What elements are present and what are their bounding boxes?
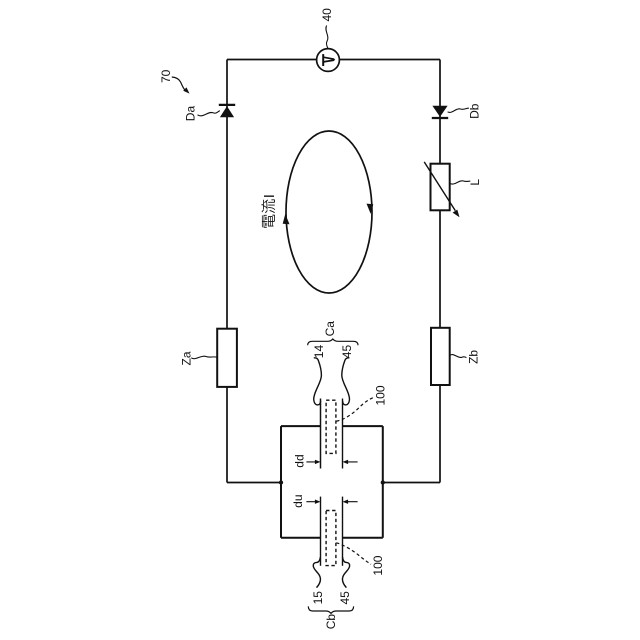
upper electrode 100 dashed	[326, 400, 336, 453]
upper transducer Ca outline left	[314, 358, 322, 405]
label L leader	[450, 181, 470, 184]
label 100 upper	[373, 385, 387, 405]
svg-text:Cb: Cb	[324, 614, 338, 630]
current loop arrowhead right (down)	[367, 204, 374, 214]
brace Ca	[308, 339, 358, 345]
label L	[468, 179, 482, 186]
diode Da	[219, 105, 235, 117]
svg-text:100: 100	[373, 385, 387, 405]
lower transducer Cb outline right	[342, 557, 349, 588]
current loop arrowhead left (up)	[283, 214, 290, 224]
svg-text:15: 15	[311, 591, 325, 605]
upper channel wall left	[320, 399, 322, 469]
svg-text:70: 70	[159, 69, 173, 83]
impedance Zb	[431, 328, 450, 385]
label 70	[159, 69, 173, 83]
brace Cb	[308, 606, 353, 613]
label dd	[293, 454, 307, 467]
label Db leader	[448, 108, 469, 112]
label Za	[180, 351, 194, 365]
wire bottom-right horizontal	[383, 482, 440, 484]
wire top-right segment	[339, 59, 440, 61]
upper channel wall right	[342, 399, 344, 469]
variable impedance L	[424, 162, 459, 217]
svg-text:45: 45	[340, 345, 354, 359]
svg-text:Za: Za	[180, 351, 194, 365]
svg-text:Da: Da	[184, 106, 198, 122]
label Db	[468, 103, 482, 119]
label Zb	[466, 350, 480, 364]
svg-text:dd: dd	[293, 454, 307, 467]
label 40 leader	[326, 26, 328, 49]
label 100 upper leader	[336, 398, 373, 422]
label 100 lower leader	[336, 543, 371, 565]
label 100 lower	[371, 555, 385, 575]
label Cb	[324, 614, 338, 630]
label Da leader	[198, 111, 220, 116]
wire bottom-left horizontal	[227, 482, 281, 484]
label 45 upper	[340, 345, 354, 359]
dimension dd	[306, 460, 357, 464]
label Za leader	[191, 356, 217, 359]
label 15	[311, 591, 325, 605]
svg-text:14: 14	[312, 345, 326, 359]
dimension du	[306, 500, 357, 504]
label current (dian-ryu I)	[261, 194, 278, 228]
upper transducer Ca outline right	[342, 358, 350, 405]
svg-text:L: L	[468, 179, 482, 186]
lower channel wall right	[342, 497, 344, 566]
lower channel wall left	[320, 497, 322, 566]
label 40	[320, 8, 334, 22]
ammeter U1 (circle)	[317, 49, 340, 72]
svg-text:I: I	[261, 194, 278, 198]
node left junction	[279, 480, 283, 484]
label 45 lower	[338, 591, 352, 605]
current loop ellipse	[286, 131, 372, 293]
wire top-left segment	[227, 59, 317, 61]
label du	[291, 494, 305, 507]
lower electrode 100 dashed	[326, 511, 336, 566]
label Ca	[323, 321, 337, 337]
label Da	[184, 106, 198, 122]
diode Db	[432, 106, 448, 118]
impedance Za	[217, 329, 237, 387]
label 14	[312, 345, 326, 359]
element body box	[281, 426, 383, 538]
svg-text:45: 45	[338, 591, 352, 605]
svg-text:Ca: Ca	[323, 321, 337, 337]
svg-text:100: 100	[371, 555, 385, 575]
svg-text:Db: Db	[468, 103, 482, 119]
label Zb leader	[450, 355, 466, 358]
svg-text:40: 40	[320, 8, 334, 22]
wire right vertical	[439, 60, 441, 483]
svg-text:Zb: Zb	[466, 350, 480, 364]
wire left vertical	[226, 60, 228, 483]
label 70 arrow	[172, 77, 190, 94]
lower transducer Cb outline left	[313, 557, 320, 588]
svg-text:du: du	[291, 494, 305, 507]
node right junction	[381, 480, 385, 484]
